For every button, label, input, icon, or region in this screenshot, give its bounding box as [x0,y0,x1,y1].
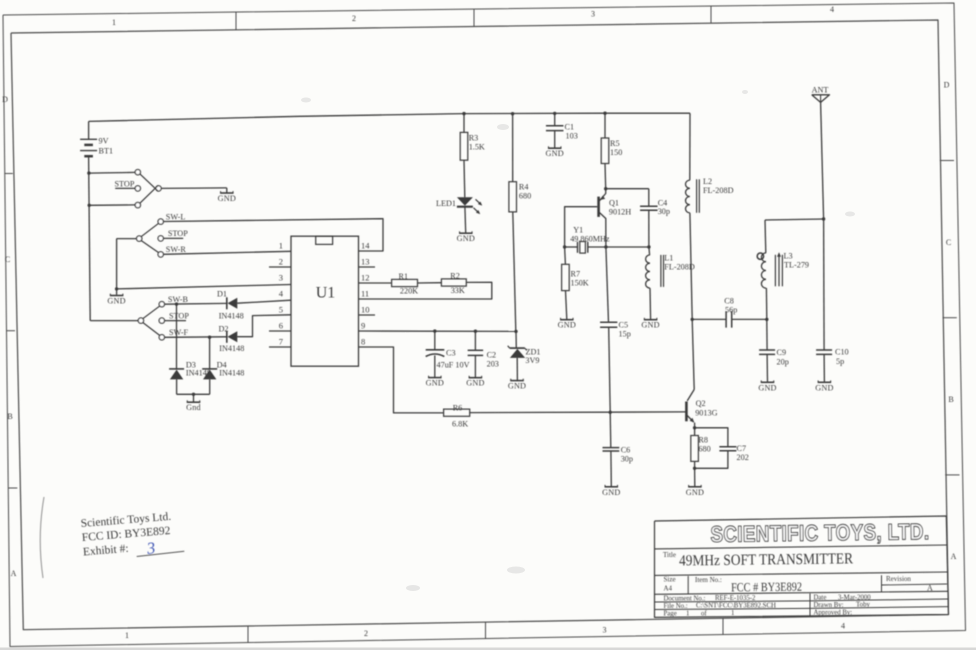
svg-text:GND: GND [457,234,475,243]
svg-text:C7: C7 [737,444,747,453]
svg-text:C3: C3 [446,349,456,358]
svg-text:Title: Title [663,551,676,559]
svg-text:Date: Date [814,595,827,602]
svg-text:D: D [944,81,950,90]
svg-text:12: 12 [361,273,370,283]
svg-text:FL-208D: FL-208D [664,263,695,272]
svg-text:STOP: STOP [168,229,188,238]
svg-text:GND: GND [426,379,444,388]
svg-text:6.8K: 6.8K [452,420,468,429]
svg-text:GND: GND [758,383,776,392]
svg-text:150: 150 [610,148,622,157]
svg-text:9013G: 9013G [695,409,717,418]
svg-text:of: of [701,610,707,617]
svg-text:A: A [951,552,957,561]
svg-text:GND: GND [218,194,236,203]
svg-text:9V: 9V [99,137,109,146]
svg-text:4: 4 [841,622,845,631]
svg-text:GND: GND [602,488,620,497]
svg-text:Revision: Revision [886,575,911,583]
svg-text:STOP: STOP [169,311,189,320]
svg-text:BT1: BT1 [99,147,114,156]
svg-text:C2: C2 [487,351,497,360]
svg-text:LED1: LED1 [436,199,456,208]
svg-text:Q2: Q2 [696,399,706,408]
svg-text:A: A [927,584,933,593]
svg-text:SW-L: SW-L [166,212,186,221]
svg-text:13: 13 [361,257,370,267]
svg-text:Page: Page [664,611,677,618]
svg-text:56p: 56p [725,306,737,315]
svg-text:Size: Size [664,576,676,584]
svg-text:Toby: Toby [856,602,870,609]
svg-text:R4: R4 [519,183,529,192]
svg-text:C: C [5,255,10,264]
svg-text:FL-208D: FL-208D [703,186,734,195]
svg-text:REF-E-1035-2: REF-E-1035-2 [715,595,756,602]
svg-text:C6: C6 [621,446,631,455]
svg-text:103: 103 [566,132,578,141]
svg-text:SW-B: SW-B [168,295,189,304]
svg-text:4: 4 [830,5,834,14]
svg-text:150K: 150K [571,279,589,288]
svg-text:2: 2 [279,257,283,267]
svg-text:C9: C9 [777,348,787,357]
svg-text:20p: 20p [777,358,789,367]
svg-text:GND: GND [686,488,704,497]
svg-text:9: 9 [361,321,365,331]
svg-text:U1: U1 [316,285,336,302]
svg-text:STOP: STOP [115,180,135,189]
svg-text:D: D [2,95,8,104]
svg-text:33K: 33K [451,286,465,295]
svg-text:B: B [7,412,12,421]
svg-text:TL-279: TL-279 [784,261,809,270]
svg-text:2: 2 [364,629,368,638]
svg-text:GND: GND [107,297,125,306]
svg-text:C:\SNT\FCC\BY3E892.SCH: C:\SNT\FCC\BY3E892.SCH [696,603,776,610]
svg-text:GND: GND [815,383,833,392]
svg-text:7: 7 [279,337,283,347]
svg-text:47uF 10V: 47uF 10V [437,361,470,370]
svg-text:Document No.:: Document No.: [664,596,706,603]
svg-text:A4: A4 [664,585,673,593]
svg-text:1: 1 [686,610,689,617]
svg-text:SCIENTIFIC TOYS, LTD.: SCIENTIFIC TOYS, LTD. [710,519,929,547]
svg-text:R3: R3 [469,134,479,143]
svg-text:FCC # BY3E892: FCC # BY3E892 [731,580,802,595]
svg-text:L2: L2 [703,177,712,186]
svg-text:Drawn By:: Drawn By: [814,602,844,609]
svg-text:GND: GND [508,382,526,391]
svg-text:3: 3 [591,10,595,19]
svg-text:1: 1 [112,18,116,27]
svg-text:IN4148: IN4148 [219,369,244,378]
svg-text:R5: R5 [610,139,620,148]
svg-text:1: 1 [279,241,283,251]
svg-text:C: C [946,238,951,247]
svg-text:11: 11 [361,289,369,299]
svg-text:C8: C8 [724,297,734,306]
svg-text:R6: R6 [453,404,463,413]
svg-text:9012H: 9012H [609,208,631,217]
svg-text:A: A [11,569,17,578]
svg-text:14: 14 [361,241,370,251]
svg-text:GND: GND [466,379,484,388]
svg-text:C1: C1 [565,123,575,132]
svg-text:R7: R7 [571,270,581,279]
svg-text:49MHz SOFT TRANSMITTER: 49MHz SOFT TRANSMITTER [679,550,854,569]
svg-text:IN4148: IN4148 [219,344,244,353]
svg-text:SW-F: SW-F [169,328,189,337]
svg-text:3: 3 [603,626,607,635]
svg-text:203: 203 [487,360,499,369]
svg-text:C10: C10 [835,348,849,357]
svg-text:1: 1 [731,610,734,617]
svg-text:Y1: Y1 [573,226,583,235]
svg-text:GND: GND [641,321,659,330]
svg-text:D1: D1 [217,290,227,299]
svg-text:SW-R: SW-R [166,245,187,254]
svg-text:B: B [948,395,953,404]
svg-text:220K: 220K [400,287,418,296]
svg-text:3V9: 3V9 [525,356,539,365]
svg-text:Q1: Q1 [609,199,619,208]
svg-text:202: 202 [737,453,749,462]
svg-text:10: 10 [361,305,370,315]
svg-text:49.860MHz: 49.860MHz [570,235,610,244]
svg-text:1: 1 [125,631,129,640]
svg-text:L1: L1 [664,254,673,263]
svg-text:R8: R8 [698,436,708,445]
svg-text:GND: GND [558,321,576,330]
svg-text:GND: GND [546,149,564,158]
svg-text:C5: C5 [619,321,629,330]
svg-text:680: 680 [519,192,531,201]
svg-text:File No.:: File No.: [664,603,688,610]
svg-text:2: 2 [352,14,356,23]
svg-text:3: 3 [279,273,283,283]
svg-text:8: 8 [361,337,365,347]
svg-text:ANT: ANT [812,86,829,95]
svg-text:Gnd: Gnd [186,403,201,412]
svg-text:5: 5 [279,305,283,315]
svg-text:30p: 30p [658,207,670,216]
svg-text:680: 680 [698,445,710,454]
svg-text:15p: 15p [619,330,631,339]
svg-text:L3: L3 [784,252,793,261]
svg-text:30p: 30p [621,455,633,464]
svg-text:IN4148: IN4148 [219,312,244,321]
svg-text:1.5K: 1.5K [469,143,485,152]
svg-text:3-Mar-2000: 3-Mar-2000 [838,595,871,602]
svg-text:5p: 5p [836,357,844,366]
svg-text:Approved By:: Approved By: [814,609,853,616]
svg-text:Item No.:: Item No.: [695,576,722,584]
svg-text:6: 6 [279,321,283,331]
